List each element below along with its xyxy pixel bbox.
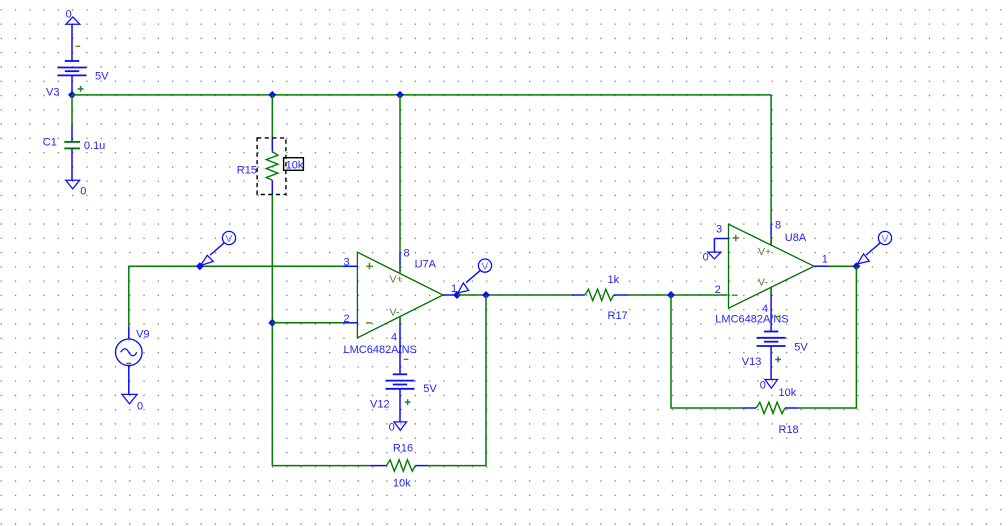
resistor R18 10k [742,387,799,436]
svg-text:U7A: U7A [415,259,437,271]
svg-text:5V: 5V [423,383,437,395]
svg-text:V: V [481,261,488,273]
node output/R16 branch [482,291,490,299]
node R15/pin2 [268,319,276,327]
selection box around R15 (dashed) [257,138,286,195]
capacitor C1 0.1u [43,137,106,181]
wire U8A output [828,265,856,267]
wire output down to R16 [428,295,486,466]
svg-text:2: 2 [344,313,350,325]
wire U7A output run [457,294,572,296]
wire rail to U7A pin8 [399,95,401,252]
op-amp U7A [343,247,458,356]
svg-text:V+: V+ [390,273,403,285]
resistor R17 1k [572,274,629,322]
svg-text:1k: 1k [608,274,620,286]
wire R15 down to R16 row [271,194,273,465]
svg-text:LMC6482A/NS: LMC6482A/NS [715,314,788,326]
svg-text:V13: V13 [742,356,762,368]
op-amp U8A [714,95,828,332]
value label 10k (selected, boxed) [284,158,304,172]
svg-text:3: 3 [344,257,350,269]
wire ground to V3 [71,24,73,61]
wire R17 to U8A pin2 [628,294,727,296]
wire +5V rail [72,94,771,96]
svg-text:R17: R17 [608,310,628,322]
wire rail to R15 [271,95,273,138]
wire V3 to C1 [71,95,73,142]
svg-text:V12: V12 [370,399,390,411]
voltage probe (U8A output) [858,231,892,264]
ground 0 (below V9) [122,394,143,412]
svg-text:0: 0 [137,400,143,412]
svg-text:0: 0 [80,185,86,197]
ground 0 (U8A pin3) [703,252,721,264]
ground 0 (below C1) [66,180,87,197]
svg-text:10k: 10k [779,387,797,399]
svg-text:1: 1 [822,254,828,266]
svg-text:V-: V- [758,276,768,288]
node probe tap on input wire [196,262,204,270]
wire node down to R18 [671,295,742,408]
sine source V9 [116,327,150,395]
voltage probe (input) [201,231,236,265]
svg-text:4: 4 [391,332,397,344]
svg-text:5V: 5V [794,341,808,353]
resistor R15 10k (vertical) [237,138,278,194]
svg-text:3: 3 [716,224,722,236]
svg-text:10k: 10k [393,478,411,490]
node V3/rail [68,91,76,99]
svg-text:V3: V3 [46,86,59,98]
battery V12 5V [370,338,437,422]
svg-text:V9: V9 [136,328,149,340]
svg-text:R15: R15 [237,165,257,177]
node U7A output / probe tap [453,291,461,299]
svg-text:8: 8 [775,219,781,231]
svg-text:V+: V+ [758,246,771,258]
svg-text:R16: R16 [393,443,413,455]
battery V13 5V [742,317,809,380]
svg-text:V: V [881,233,888,245]
wire V9 to U7A pin3 [129,266,343,326]
svg-text:0.1u: 0.1u [84,140,105,152]
resistor R16 10k (feedback) [370,443,428,490]
ground 0 (below V12) [389,421,407,433]
wire R15 column to R16 [272,465,370,467]
svg-text:LMC6482A/NS: LMC6482A/NS [344,344,417,356]
svg-text:C1: C1 [43,137,57,149]
node rail/U7A pin8 [396,91,404,99]
svg-text:R18: R18 [779,424,799,436]
ground 0 (below V13) [760,379,778,391]
svg-text:V-: V- [390,307,400,319]
svg-text:5V: 5V [95,71,109,83]
node rail/R15 [268,91,276,99]
svg-text:0: 0 [66,9,72,21]
svg-text:V: V [225,233,232,245]
svg-text:10k: 10k [286,159,304,171]
svg-text:0: 0 [760,379,766,391]
battery V3 5V [46,46,109,98]
node U8A output [852,262,860,270]
voltage probe (U7A output) [458,259,492,293]
svg-text:0: 0 [703,252,709,264]
wire U8A output down to R18 [799,266,857,408]
svg-text:0: 0 [389,421,395,433]
svg-text:U8A: U8A [785,232,807,244]
svg-text:8: 8 [404,247,410,259]
wire node to U7A pin2 [272,322,342,324]
svg-text:2: 2 [715,284,721,296]
node R17/R18 branch [667,291,675,299]
ground 0 (top, above V3) [66,9,80,25]
